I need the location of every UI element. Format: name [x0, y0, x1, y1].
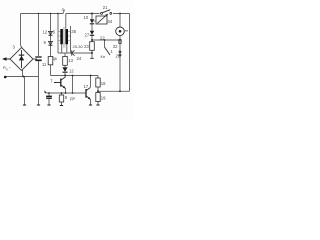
diode D2 on x91.5 — [90, 31, 94, 36]
resistor R23 — [90, 42, 95, 51]
wire resistor13 top lead — [64, 53, 66, 57]
diode D1 on x91.5 — [90, 19, 94, 24]
capacitor C2 bottom — [46, 96, 52, 98]
svg-text:24: 24 — [77, 56, 82, 61]
wire secondary bus y53.5 — [58, 52, 92, 54]
svg-text:Rg ~: Rg ~ — [3, 65, 12, 71]
wire y93.5 left end mark — [44, 90, 47, 93]
svg-text:19: 19 — [101, 96, 106, 101]
connector K on secondary bus — [72, 50, 75, 55]
wire rectifier column x91.5 — [91, 14, 93, 20]
junction dots — [23, 13, 121, 94]
wire rail x50 — [50, 14, 52, 57]
svg-text:21: 21 — [103, 5, 108, 10]
wire bridge right lead — [33, 58, 37, 60]
svg-text:25-30: 25-30 — [73, 44, 84, 49]
resistor R8 bottom — [59, 95, 63, 102]
wire right frame — [129, 14, 131, 92]
svg-text:18: 18 — [101, 81, 106, 86]
wire collector2 riser — [90, 76, 92, 88]
wire bridge bottom drop — [22, 70, 24, 77]
wire emitter1 drop — [65, 89, 67, 94]
svg-text:Кн: Кн — [101, 54, 106, 59]
relay arrow — [97, 15, 107, 24]
relay box — [96, 16, 107, 24]
wire transformer left lead — [57, 14, 59, 54]
diode D below R13 — [62, 67, 67, 72]
wire lamp side tick — [125, 30, 128, 32]
svg-text:12: 12 — [69, 69, 74, 74]
transformer right taps — [68, 32, 71, 41]
resistor R11 — [48, 57, 53, 65]
diode D9 on x50 — [49, 41, 53, 45]
wire primary top lead — [65, 14, 67, 29]
terminal feet — [23, 58, 100, 105]
wire Rg output line — [6, 76, 39, 78]
diode D12 on x50 — [49, 31, 53, 35]
wire switch16 drop — [104, 40, 106, 47]
transformer winding bars — [60, 29, 63, 44]
svg-text:27: 27 — [85, 33, 90, 38]
switch Kn blade — [105, 47, 111, 55]
wire cap2 leads — [48, 93, 50, 96]
svg-text:20: 20 — [116, 54, 121, 59]
svg-text:22: 22 — [100, 36, 105, 41]
svg-text:32: 32 — [113, 44, 118, 49]
wire cap rail x38 — [38, 14, 40, 57]
svg-text:11: 11 — [42, 62, 47, 67]
switch S21 — [101, 12, 103, 14]
wire emitter2 drop — [90, 100, 92, 105]
svg-text:23: 23 — [84, 44, 89, 49]
svg-text:12: 12 — [43, 30, 48, 35]
wire lamp column — [119, 14, 121, 27]
svg-text:13: 13 — [68, 58, 73, 63]
wire res8 leads — [61, 93, 63, 95]
wire top bus left — [21, 13, 64, 15]
svg-text:35: 35 — [71, 29, 76, 34]
lamp L6 — [116, 27, 125, 36]
svg-text:10: 10 — [84, 15, 89, 20]
transformer core lines — [63, 27, 65, 48]
svg-text:Д6: Д6 — [53, 57, 57, 61]
wire collector bus y76 — [51, 75, 99, 77]
wire relay chain x97.5 — [97, 76, 99, 79]
node Rg terminal dot — [4, 76, 7, 79]
wire lamp branch y40.5 — [92, 39, 120, 41]
wire bottom right bus y91 — [98, 90, 130, 92]
capacitor C on x38 — [35, 57, 41, 60]
transformer left taps — [58, 32, 60, 41]
connector 20 dots — [119, 51, 121, 53]
wire left rail — [20, 14, 22, 46]
labels — [3, 5, 121, 101]
diode inside bridge — [19, 50, 24, 68]
transistor T1 — [54, 77, 66, 89]
wire base bus y93.5 — [47, 92, 87, 94]
transistor T2 — [86, 87, 91, 99]
connector 32 on lamp column — [119, 40, 121, 44]
wire top bus right — [113, 13, 130, 15]
wire transformer right lead — [70, 26, 72, 53]
bridge rectifier diamond — [10, 48, 33, 71]
input arrow — [2, 57, 10, 60]
wire secondary bottom leads — [61, 44, 63, 54]
svg-text:17: 17 — [84, 84, 89, 89]
resistor R18 — [96, 78, 100, 87]
resistor R19 — [96, 93, 100, 102]
wire relay stub — [92, 20, 96, 22]
wire x72 drop — [72, 76, 74, 94]
resistor R13 — [63, 57, 68, 66]
svg-text:Дп: Дп — [70, 96, 75, 101]
svg-text:34: 34 — [108, 19, 113, 24]
